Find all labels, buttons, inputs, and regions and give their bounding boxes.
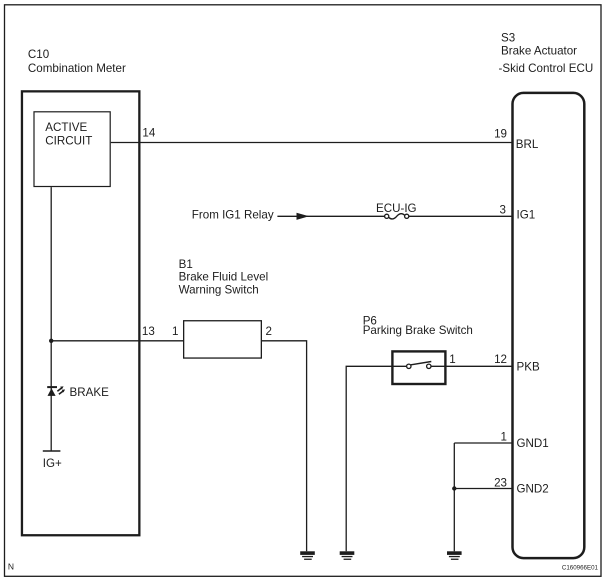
wire node to B1 pin 1 [51, 340, 183, 342]
label S3 Brake Actuator -Skid Control ECU [499, 32, 594, 75]
svg-text:GND1: GND1 [517, 437, 549, 450]
fuse ECU-IG [385, 214, 409, 219]
wire P6 to PKB pin [431, 365, 512, 367]
switch P6 box [392, 351, 445, 384]
ground G3 [447, 551, 462, 560]
svg-text:1: 1 [172, 325, 178, 338]
wire vertical inside C10 [50, 187, 52, 451]
svg-text:IG1: IG1 [517, 208, 536, 221]
label C10 Combination Meter [28, 48, 126, 75]
svg-text:PKB: PKB [517, 361, 540, 374]
svg-text:Warning Switch: Warning Switch [179, 284, 259, 297]
wire BRL net (pin 14 to pin 19) [111, 142, 512, 144]
svg-text:2: 2 [266, 325, 272, 338]
svg-text:N: N [8, 562, 14, 572]
svg-text:14: 14 [142, 126, 155, 139]
svg-text:C10: C10 [28, 48, 49, 61]
svg-text:From IG1 Relay: From IG1 Relay [192, 208, 274, 221]
wire IG1 net [277, 215, 384, 217]
active circuit U1 box [34, 112, 110, 187]
svg-text:3: 3 [500, 203, 506, 216]
wire GND1 net [454, 442, 511, 444]
ground G2 [340, 551, 355, 560]
connector C10 box [22, 91, 139, 535]
LED emission arrow 2 [59, 390, 65, 395]
svg-text:BRL: BRL [516, 138, 539, 151]
switch P6 contacts [407, 362, 432, 369]
svg-text:Combination Meter: Combination Meter [28, 62, 126, 75]
svg-text:ECU-IG: ECU-IG [376, 202, 417, 215]
svg-text:Brake Actuator: Brake Actuator [501, 44, 577, 57]
svg-text:GND2: GND2 [517, 483, 549, 496]
switch B1 box [184, 321, 262, 358]
svg-text:C160966E01: C160966E01 [562, 564, 599, 571]
svg-text:BRAKE: BRAKE [70, 386, 110, 399]
svg-text:ACTIVE: ACTIVE [45, 121, 87, 134]
svg-text:IG+: IG+ [43, 457, 62, 470]
wire GND vertical to ground [453, 443, 455, 551]
svg-text:B1: B1 [179, 258, 193, 271]
svg-text:1: 1 [449, 353, 455, 366]
junction node B [452, 486, 456, 490]
LED emission arrow 1 [57, 386, 63, 391]
svg-text:CIRCUIT: CIRCUIT [45, 134, 92, 147]
svg-text:-Skid Control ECU: -Skid Control ECU [499, 62, 594, 75]
wire GND2 net [454, 488, 511, 490]
svg-text:19: 19 [494, 128, 507, 141]
label ACTIVE CIRCUIT [45, 121, 92, 147]
arrowhead on IG1 wire [297, 213, 310, 220]
svg-text:Parking Brake Switch: Parking Brake Switch [363, 324, 473, 337]
wire B1 pin 2 to ground [262, 341, 307, 552]
ground G1 [300, 551, 315, 560]
svg-text:Brake Fluid Level: Brake Fluid Level [179, 270, 269, 283]
wire fuse to IG1 pin [409, 215, 512, 217]
power IG+ bar [43, 450, 61, 452]
svg-text:12: 12 [494, 353, 507, 366]
wire P6 left to ground [346, 366, 406, 551]
junction node A [49, 339, 53, 343]
ECU S3 box [513, 93, 585, 558]
label B1 Brake Fluid Level Warning Switch [179, 258, 269, 297]
LED D1 BRAKE cathode bar [47, 386, 57, 388]
svg-text:S3: S3 [501, 32, 515, 45]
LED D1 BRAKE triangle [48, 388, 56, 396]
svg-text:13: 13 [142, 325, 155, 338]
svg-text:1: 1 [501, 431, 507, 444]
label P6 Parking Brake Switch [363, 315, 473, 338]
svg-text:23: 23 [494, 476, 507, 489]
